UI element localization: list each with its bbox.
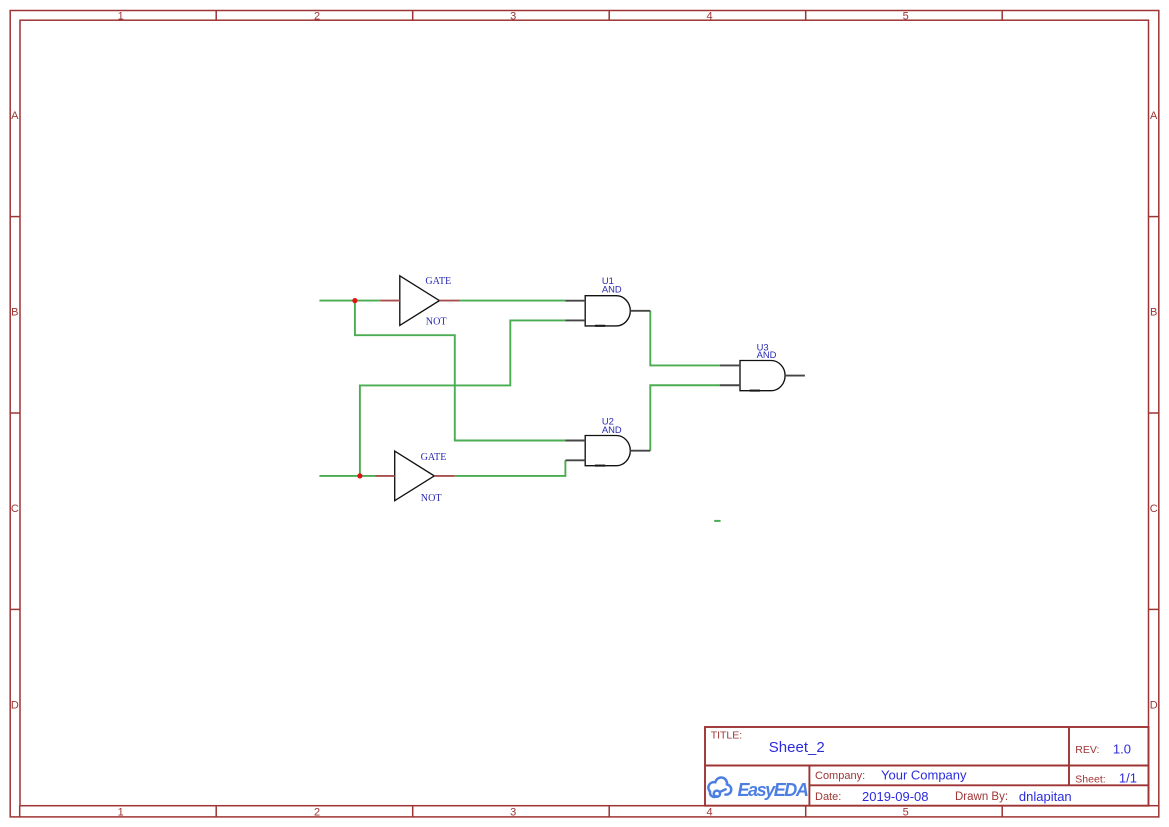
svg-text:5: 5 xyxy=(903,807,909,819)
pin 1 of U2 xyxy=(566,440,586,442)
svg-text:Drawn By:: Drawn By: xyxy=(955,791,1008,803)
AND gate U3 bottom dash xyxy=(750,390,760,392)
svg-text:1: 1 xyxy=(118,10,124,22)
stray wire stub xyxy=(714,520,720,522)
AND gate U1 body xyxy=(585,296,630,326)
svg-text:2019-09-08: 2019-09-08 xyxy=(862,789,929,804)
svg-text:D: D xyxy=(1150,699,1158,711)
svg-text:3: 3 xyxy=(510,807,516,819)
wire net IN2 horizontal xyxy=(319,475,375,477)
pin 1 of U3 xyxy=(720,364,740,366)
AND gate U3 body xyxy=(740,361,785,391)
svg-text:EasyEDA: EasyEDA xyxy=(738,780,808,800)
pin 3 of U1 xyxy=(630,310,650,312)
svg-text:A: A xyxy=(1150,110,1158,122)
inverter GATE1 body xyxy=(400,276,440,326)
wire U2 output to U3 pin2 xyxy=(650,385,719,450)
svg-text:AND: AND xyxy=(602,424,622,435)
AND gate U1 bottom dash xyxy=(595,325,605,327)
svg-text:B: B xyxy=(11,307,18,319)
AND gate U2 bottom dash xyxy=(595,465,605,467)
EasyEDA logo xyxy=(708,778,731,797)
svg-text:1/1: 1/1 xyxy=(1119,771,1137,786)
svg-text:REV:: REV: xyxy=(1075,744,1099,756)
pin 3 of U2 xyxy=(630,450,650,452)
svg-text:C: C xyxy=(1150,503,1158,515)
svg-text:3: 3 xyxy=(510,10,516,22)
svg-text:4: 4 xyxy=(706,807,712,819)
svg-text:5: 5 xyxy=(903,10,909,22)
svg-text:1.0: 1.0 xyxy=(1113,741,1131,756)
svg-text:GATE: GATE xyxy=(421,452,447,463)
pin 2 of U2 xyxy=(566,459,586,461)
svg-text:D: D xyxy=(11,699,19,711)
svg-text:dnlapitan: dnlapitan xyxy=(1019,789,1072,804)
svg-text:NOT: NOT xyxy=(426,317,447,328)
svg-text:B: B xyxy=(1150,307,1157,319)
svg-text:Company:: Company: xyxy=(815,770,865,782)
wire GATE2 output to U2 pin2 xyxy=(455,460,566,476)
svg-text:GATE: GATE xyxy=(425,276,451,287)
svg-text:A: A xyxy=(11,110,19,122)
pin 2 of GATE1 xyxy=(439,300,460,302)
svg-text:AND: AND xyxy=(757,349,777,360)
svg-text:C: C xyxy=(11,503,19,515)
pin 2 of GATE2 xyxy=(434,475,455,477)
svg-text:AND: AND xyxy=(602,284,622,295)
svg-text:TITLE:: TITLE: xyxy=(711,730,743,742)
svg-text:Date:: Date: xyxy=(815,791,841,803)
pin 3 of U3 xyxy=(785,375,805,377)
pin 2 of U1 xyxy=(566,319,586,321)
junction dot net IN1 xyxy=(352,298,357,303)
wire net IN1 horizontal xyxy=(319,300,380,302)
svg-text:2: 2 xyxy=(314,807,320,819)
pin 1 of U1 xyxy=(566,300,586,302)
pin 1 of GATE1 xyxy=(380,300,400,302)
AND gate U2 body xyxy=(585,436,630,466)
pin 1 of GATE2 xyxy=(375,475,395,477)
wire net IN2 branch to U1 pin2 xyxy=(360,320,566,475)
pin 2 of U3 xyxy=(720,384,740,386)
svg-text:Sheet:: Sheet: xyxy=(1075,773,1105,785)
svg-text:4: 4 xyxy=(706,10,712,22)
svg-text:NOT: NOT xyxy=(421,493,442,504)
junction dot net IN2 xyxy=(357,473,362,478)
svg-text:2: 2 xyxy=(314,10,320,22)
inverter GATE2 body xyxy=(395,451,435,501)
svg-text:Sheet_2: Sheet_2 xyxy=(769,739,825,756)
svg-text:Your Company: Your Company xyxy=(881,768,967,783)
wire U1 output to U3 pin1 xyxy=(650,311,719,366)
wire GATE1 output to U1 pin1 xyxy=(460,300,566,302)
wire net IN1 branch to U2 pin1 xyxy=(355,301,566,441)
svg-text:1: 1 xyxy=(118,807,124,819)
